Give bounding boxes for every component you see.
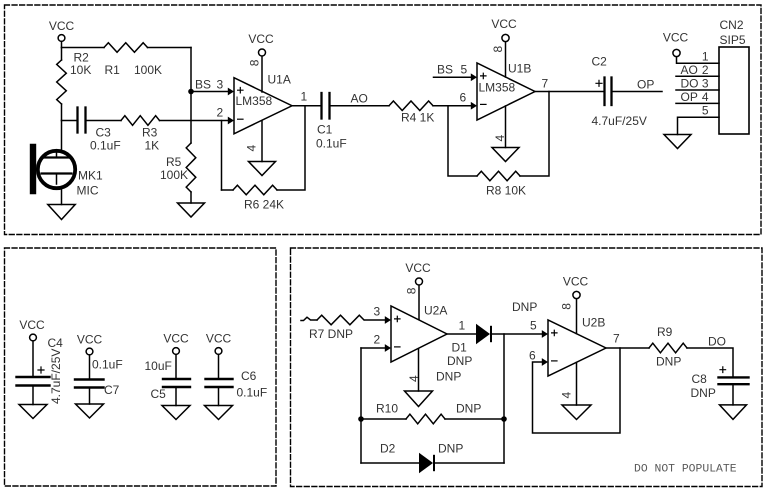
svg-text:R1: R1 xyxy=(105,63,121,77)
pin arrow U1B pin5 xyxy=(471,73,477,81)
pin number 8 (U2B) xyxy=(560,303,574,310)
VCC symbol (U1B pin8) xyxy=(491,17,517,77)
svg-text:VCC: VCC xyxy=(563,275,589,289)
pin number 4 (U1A) xyxy=(245,145,259,152)
resistor R10 xyxy=(406,414,445,424)
wire R8 right up to output xyxy=(520,92,549,177)
svg-text:1: 1 xyxy=(459,319,466,333)
svg-text:AO: AO xyxy=(681,63,698,77)
wire D2 left xyxy=(361,462,419,464)
wire R3 to U1A pin2 xyxy=(160,120,229,122)
wire R10 left xyxy=(361,418,406,420)
svg-text:6: 6 xyxy=(460,91,467,105)
wire CN2 pin4 xyxy=(676,102,719,104)
svg-text:VCC: VCC xyxy=(206,332,232,346)
svg-text:4.7uF/25V: 4.7uF/25V xyxy=(49,349,63,404)
pin number 4 (U2B) xyxy=(560,392,574,399)
svg-text:R3: R3 xyxy=(142,126,158,140)
wire U2B pin6 feedback loop xyxy=(533,348,621,433)
wire U1B output to C2 xyxy=(535,91,603,93)
capacitor C4 xyxy=(17,377,50,386)
wire C8 to ground xyxy=(732,385,734,405)
wire C3 left xyxy=(62,120,77,122)
svg-text:4.7uF/25V: 4.7uF/25V xyxy=(592,114,647,128)
VCC symbol (C7) xyxy=(77,333,103,379)
wire U2A output to D1 xyxy=(447,333,476,335)
svg-text:D1: D1 xyxy=(452,341,468,355)
svg-text:R7 DNP: R7 DNP xyxy=(309,327,353,341)
pin number 8 (U1A) xyxy=(248,59,262,66)
wire CN2 pin2 xyxy=(676,75,719,77)
VCC symbol (C6) xyxy=(206,332,232,379)
svg-text:U1B: U1B xyxy=(508,62,531,76)
VCC symbol (top-left) xyxy=(49,19,75,48)
wire R6 right up to output xyxy=(277,106,305,190)
VCC symbol (C4) xyxy=(19,318,45,376)
capacitor C7 xyxy=(75,380,104,388)
svg-text:U1A: U1A xyxy=(268,73,291,87)
svg-text:DNP: DNP xyxy=(447,354,472,368)
wire CN2 pin5 to ground xyxy=(678,117,720,134)
pin number 8 (U1B) xyxy=(491,46,505,53)
capacitor C6 xyxy=(206,379,233,387)
svg-text:8: 8 xyxy=(560,303,574,310)
plus mark C4 xyxy=(38,367,44,373)
wire CN2 pin3 xyxy=(676,89,719,91)
svg-text:4: 4 xyxy=(702,90,709,104)
svg-text:7: 7 xyxy=(613,332,620,346)
svg-text:3: 3 xyxy=(217,78,224,92)
svg-text:R5: R5 xyxy=(166,155,182,169)
svg-text:C5: C5 xyxy=(151,387,167,401)
capacitor C2 xyxy=(605,78,612,106)
svg-text:DNP: DNP xyxy=(691,386,716,400)
minus mark U2B xyxy=(552,360,557,362)
svg-text:U2A: U2A xyxy=(424,304,447,318)
svg-text:D2: D2 xyxy=(380,442,396,456)
wire C1 to R4 xyxy=(331,105,390,107)
svg-text:10uF: 10uF xyxy=(145,359,172,373)
svg-text:2: 2 xyxy=(374,333,381,347)
svg-text:2: 2 xyxy=(702,63,709,77)
svg-text:C1: C1 xyxy=(317,123,333,137)
wire C2 to OP xyxy=(613,91,663,93)
ground (C6) xyxy=(205,406,233,420)
svg-text:0.1uF: 0.1uF xyxy=(92,358,123,372)
pin number 8 (U2A) xyxy=(405,287,419,294)
wire U1A output to C1 xyxy=(292,105,320,107)
wire R10 right xyxy=(445,418,504,420)
svg-text:DNP: DNP xyxy=(456,402,481,416)
capacitor C8 xyxy=(719,377,749,384)
plus mark C8 xyxy=(720,367,726,373)
svg-text:SIP5: SIP5 xyxy=(720,33,746,47)
diode D2 xyxy=(419,453,434,473)
svg-text:C7: C7 xyxy=(104,383,120,397)
resistor R6 xyxy=(233,185,277,195)
resistor R5 xyxy=(186,143,196,192)
wire U2B pin4 xyxy=(576,363,578,406)
ground (U2B) xyxy=(562,405,591,420)
pin arrow U2A pin2 xyxy=(385,344,391,352)
svg-text:0.1uF: 0.1uF xyxy=(90,139,121,153)
plus mark U1B xyxy=(481,73,486,78)
VCC symbol (U2B pin8) xyxy=(563,275,589,334)
svg-text:DO: DO xyxy=(708,335,726,349)
wire feedback from pin2 line down xyxy=(221,121,223,191)
pin arrow U1B pin6 xyxy=(471,102,477,110)
minus mark U2A xyxy=(395,346,400,348)
wire U2A pin2 xyxy=(361,347,385,349)
svg-text:VCC: VCC xyxy=(49,19,75,33)
svg-text:10K: 10K xyxy=(70,63,91,77)
pin arrow U2B pin5 xyxy=(542,330,548,338)
border box 3 (DNP section) xyxy=(291,248,763,487)
svg-text:4: 4 xyxy=(245,145,259,152)
resistor R4 xyxy=(389,101,433,111)
resistor R8 xyxy=(477,171,520,181)
svg-text:C6: C6 xyxy=(241,369,257,383)
wire D2 right xyxy=(434,462,504,464)
wire BS to U1B pin5 xyxy=(434,76,472,78)
wire C5 to ground xyxy=(175,388,177,406)
resistor R1 xyxy=(104,43,148,53)
ground (R5) xyxy=(178,203,205,217)
wire vertical bus down to R5 xyxy=(190,48,192,144)
svg-text:MIC: MIC xyxy=(77,184,99,198)
junction dot R10 right xyxy=(501,416,507,422)
wire R9 to DO / C8 xyxy=(687,348,733,376)
op-amp U1B xyxy=(477,63,535,120)
wire U1A pin4 xyxy=(261,121,263,162)
ground (mic) xyxy=(48,205,75,220)
resistor R3 xyxy=(121,116,160,126)
border box 1 (top section) xyxy=(5,5,762,235)
svg-text:8: 8 xyxy=(491,46,505,53)
wire U1B pin4 xyxy=(505,106,507,148)
svg-text:VCC: VCC xyxy=(491,17,517,31)
plus mark C2 xyxy=(596,80,602,86)
wire R5 to ground xyxy=(190,192,192,203)
svg-text:OP: OP xyxy=(681,90,698,104)
resistor R7 xyxy=(317,315,364,325)
wire feedback tap down to R8 xyxy=(448,106,477,176)
svg-text:R4 1K: R4 1K xyxy=(401,111,434,125)
pin arrow U1A pin3 xyxy=(228,88,234,96)
pin number 4 (U2A) xyxy=(407,375,421,382)
wire R6 left xyxy=(222,189,234,191)
wire D1 to U2B pin5 xyxy=(491,333,542,335)
wire R1 to vertical bus xyxy=(148,47,192,49)
svg-text:0.1uF: 0.1uF xyxy=(237,386,268,400)
ground (U1A) xyxy=(249,162,276,176)
wire C4 to ground xyxy=(32,387,34,405)
wire R4 to U1B pin6 xyxy=(433,105,472,107)
svg-text:VCC: VCC xyxy=(405,261,431,275)
svg-text:R8 10K: R8 10K xyxy=(486,184,526,198)
svg-text:8: 8 xyxy=(248,59,262,66)
ground (U1B) xyxy=(492,148,519,162)
pin arrow U2A pin3 xyxy=(385,316,391,324)
svg-text:AO: AO xyxy=(351,92,368,106)
ground (C7) xyxy=(76,404,104,418)
wire C3 node to mic xyxy=(61,121,63,153)
border box 2 (bypass caps) xyxy=(5,248,277,486)
svg-text:DO: DO xyxy=(681,77,699,91)
op-amp U1A xyxy=(234,78,292,134)
svg-text:C8: C8 xyxy=(692,372,708,386)
svg-text:5: 5 xyxy=(461,63,468,77)
svg-text:R9: R9 xyxy=(657,325,673,339)
capacitor C5 xyxy=(163,379,190,387)
svg-text:1K: 1K xyxy=(145,139,160,153)
svg-text:DNP: DNP xyxy=(512,300,537,314)
ground (C8) xyxy=(720,405,747,420)
wire left vertical (pin2 to D2 line) xyxy=(360,348,362,463)
wire R2 top xyxy=(61,48,63,61)
svg-text:LM358: LM358 xyxy=(479,81,516,95)
svg-text:4: 4 xyxy=(407,375,421,382)
op-amp U2A xyxy=(391,306,447,362)
diode D1 xyxy=(476,324,491,344)
ground (C5) xyxy=(162,406,190,420)
svg-text:8: 8 xyxy=(405,287,419,294)
svg-text:C2: C2 xyxy=(592,55,608,69)
svg-text:VCC: VCC xyxy=(663,31,689,45)
pin number 4 (U1B) xyxy=(493,135,507,142)
plus mark U1A xyxy=(238,88,243,93)
plus mark U2B xyxy=(552,330,557,335)
svg-text:C4: C4 xyxy=(48,336,64,350)
svg-text:CN2: CN2 xyxy=(720,18,744,32)
resistor R9 xyxy=(649,343,687,353)
wire BS node to U1A pin3 xyxy=(191,91,228,93)
svg-text:MK1: MK1 xyxy=(78,169,103,183)
wire U2A pin4 xyxy=(418,349,420,391)
minus mark U1A xyxy=(238,118,243,120)
resistor R2 xyxy=(57,60,67,104)
wire mic to ground xyxy=(61,187,63,205)
wire R7 to U2A pin3 xyxy=(365,319,385,321)
svg-text:1: 1 xyxy=(702,49,709,63)
svg-text:7: 7 xyxy=(542,77,549,91)
svg-text:6: 6 xyxy=(529,349,536,363)
op-amp U2B xyxy=(548,320,606,376)
svg-text:100K: 100K xyxy=(160,168,188,182)
junction dot R10 left xyxy=(358,416,364,422)
svg-text:LM358: LM358 xyxy=(236,94,273,108)
ground (U2A) xyxy=(405,391,433,407)
ground (CN2) xyxy=(664,135,691,149)
svg-text:DO NOT POPULATE: DO NOT POPULATE xyxy=(634,464,737,476)
svg-text:5: 5 xyxy=(702,103,709,117)
minus mark U1B xyxy=(481,103,486,105)
wire C6 to ground xyxy=(218,388,220,406)
svg-text:DNP: DNP xyxy=(656,355,681,369)
node BS junction dot xyxy=(188,89,194,95)
VCC symbol (U2A pin8) xyxy=(405,261,431,320)
pin arrow U1A pin2 xyxy=(228,117,234,125)
wire R2 bottom to C3 node xyxy=(61,104,63,121)
svg-text:4: 4 xyxy=(560,392,574,399)
svg-text:100K: 100K xyxy=(134,63,162,77)
capacitor C3 xyxy=(78,108,86,133)
svg-text:0.1uF: 0.1uF xyxy=(316,137,347,151)
svg-text:OP: OP xyxy=(637,78,654,92)
svg-text:U2B: U2B xyxy=(582,316,605,330)
ground (C4) xyxy=(19,405,47,419)
svg-text:BS: BS xyxy=(195,78,211,92)
VCC symbol (CN2 pin1) xyxy=(663,31,719,64)
connector CN2 xyxy=(719,47,749,134)
svg-text:VCC: VCC xyxy=(163,332,189,346)
VCC symbol (U1A pin8) xyxy=(248,32,274,92)
svg-text:R10: R10 xyxy=(376,402,398,416)
wire C3 to R3 xyxy=(87,120,122,122)
svg-text:VCC: VCC xyxy=(248,32,274,46)
plus mark U2A xyxy=(395,316,400,321)
svg-text:3: 3 xyxy=(374,305,381,319)
wire right vertical (D1 node to D2 line) xyxy=(503,334,505,463)
capacitor C1 xyxy=(322,93,330,119)
svg-text:3: 3 xyxy=(702,77,709,91)
svg-text:VCC: VCC xyxy=(19,318,45,332)
microphone MK1 xyxy=(33,147,75,191)
svg-text:C3: C3 xyxy=(96,126,112,140)
pin arrow U2B pin6 xyxy=(542,358,548,366)
svg-text:4: 4 xyxy=(493,135,507,142)
wire R7 left stub xyxy=(301,317,317,320)
VCC symbol (C5) xyxy=(163,332,189,379)
svg-text:DNP: DNP xyxy=(436,370,461,384)
wire U2B output to R9 xyxy=(606,347,649,349)
svg-text:1: 1 xyxy=(301,90,308,104)
svg-text:5: 5 xyxy=(530,319,537,333)
svg-text:DNP: DNP xyxy=(438,442,463,456)
wire VCC node to R1 xyxy=(62,47,105,49)
svg-text:R6 24K: R6 24K xyxy=(244,198,284,212)
svg-text:VCC: VCC xyxy=(77,333,103,347)
wire C7 to ground xyxy=(89,389,91,405)
value 4.7uF/25V (rotated) xyxy=(49,349,63,404)
svg-text:2: 2 xyxy=(217,106,224,120)
svg-text:BS: BS xyxy=(437,63,453,77)
